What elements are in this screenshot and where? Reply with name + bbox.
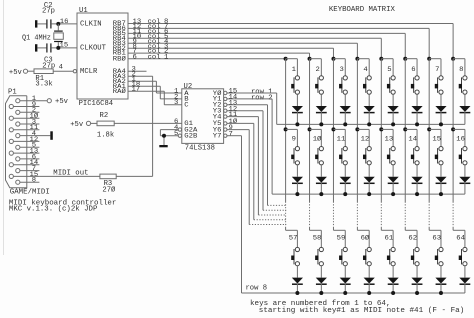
key switch S2 [310,58,322,60]
wire C2 to CLKIN [52,23,77,25]
svg-text:+5v: +5v [70,121,84,129]
key switch S15 [429,128,441,130]
node col 2 row 2 branch [308,127,312,131]
node row 8 col 3 [343,291,347,295]
diode D16 [464,165,466,177]
wire Y7 to row 8 [227,135,242,137]
node row 8 col 1 [295,291,299,295]
node row 2 col 2 [319,192,323,196]
P1 pin 8 [16,180,20,184]
wire RB1 col 2 feed [128,52,310,54]
wire row 2 bus [272,193,465,195]
diode D15 [440,165,442,177]
U1 pin RA4 stub [128,70,147,72]
diode D7 [440,94,442,106]
diode D8 [464,94,466,106]
svg-text:C: C [184,102,189,109]
Y4 inverting bubble [224,115,227,118]
diode D60 [368,266,370,278]
wire R1 to MCLR [53,70,73,72]
svg-text:col: col [148,53,161,60]
P1 pin 1 [16,99,20,103]
svg-text:Q1 4MHz: Q1 4MHz [22,34,51,42]
key switch S7 [429,58,441,60]
wire row 8 bus [242,292,465,294]
Y3 inverting bubble [224,109,227,112]
key switch S60 [357,229,369,231]
svg-text:RBØ: RBØ [113,55,126,62]
node row 2 col 5 [391,192,395,196]
capacitor C2 [37,23,46,25]
wire col 3 vertical [332,59,334,202]
Y2 inverting bubble [224,103,227,106]
diode D63 [440,266,442,278]
svg-text:27Ø: 27Ø [102,185,116,194]
svg-text:3: 3 [339,66,344,73]
node CLKIN junction [56,22,60,26]
diode D4 [368,94,370,106]
wire Y1 to row 2 [227,98,272,100]
diode D57 [296,266,298,278]
svg-text:62: 62 [408,235,417,242]
node col 5 top [379,57,383,61]
wire col 3 drop [332,48,334,59]
wire col 7 drop [428,28,430,58]
diode D6 [416,94,418,106]
svg-text:1: 1 [164,53,169,60]
svg-text:27p: 27p [42,8,55,16]
svg-text:1: 1 [292,66,297,73]
svg-text:11: 11 [337,136,346,143]
wire RB2 col 3 feed [128,47,333,49]
wire col 1 vertical [285,59,287,202]
key switch S61 [381,229,393,231]
wire Y0 to row 1 [227,92,277,94]
wire Y4 to row 5 (omitted) [227,116,258,118]
wire crystal top [57,24,59,30]
node row 1 col 1 [295,122,299,126]
key switch S57 [286,229,298,231]
node col 2 top [308,57,312,61]
wire P1 pin 15 to R3 [39,175,100,177]
svg-text:4: 4 [59,64,64,71]
key switch S1 [286,58,298,60]
key switch S13 [381,128,393,130]
ground bar at P1 [50,131,53,140]
node col 4 top [355,57,359,61]
key switch S63 [429,229,441,231]
node row 8 col 2 [319,291,323,295]
diode D61 [392,266,394,278]
svg-text:5: 5 [387,66,392,73]
diode D62 [416,266,418,278]
svg-text:13: 13 [385,136,394,143]
wire col 4 vertical [356,59,358,202]
svg-text:2: 2 [316,66,321,73]
Y5 inverting bubble [224,122,227,125]
node row 8 col 6 [415,291,419,295]
node col 7 top [427,57,431,61]
svg-text:12: 12 [361,136,370,143]
wire RB6 col 7 feed [128,27,429,29]
svg-text:CLKOUT: CLKOUT [80,45,107,53]
key switch S58 [310,229,322,231]
wire Y5 to row 6 (omitted) [227,122,254,124]
node row 1 col 6 [415,122,419,126]
svg-text:R2: R2 [100,112,109,120]
key switch S6 [405,58,417,60]
crystal Q1 [54,31,63,32]
diode D64 [464,266,466,278]
P1 pin 9 [9,104,13,108]
wire Y3 to row 4 (omitted) [227,110,263,112]
capacitor C3 [37,47,46,49]
svg-text:MCLR: MCLR [80,68,98,76]
node col 3 top [331,57,335,61]
key switch S5 [381,58,393,60]
P1 pin 5 [16,145,20,149]
svg-text:7: 7 [229,130,234,137]
ground bar at C3 [35,44,37,51]
P1 pin 2 [16,110,20,114]
svg-text:CLKIN: CLKIN [80,21,102,29]
svg-text:6: 6 [133,53,138,60]
P1 pin 11 [9,128,13,132]
node col 8 top [451,57,455,61]
resistor R1 [34,69,53,74]
diode D5 [392,94,394,106]
diode D59 [344,266,346,278]
node row 8 col 5 [391,291,395,295]
svg-text:8: 8 [459,66,464,73]
key switch S10 [310,128,322,130]
svg-text:8: 8 [32,177,37,184]
ground bar below U2 [159,145,167,147]
svg-text:+5v: +5v [55,98,69,106]
node row 8 col 4 [367,291,371,295]
node col 3 row 2 branch [331,127,335,131]
diode D2 [320,94,322,106]
svg-text:64: 64 [456,235,465,242]
svg-text:59: 59 [337,235,346,242]
wire col 8 drop [452,24,454,59]
node row 1 col 4 [367,122,371,126]
svg-text:6Ø: 6Ø [361,235,370,242]
svg-text:3: 3 [174,99,179,106]
svg-text:GAME/MIDI: GAME/MIDI [10,189,50,197]
P1 pin 14 [9,163,13,167]
wire col 5 vertical [380,59,382,202]
wire col 4 drop [356,43,358,59]
P1 pin 15 [9,174,13,178]
svg-text:KEYBOARD MATRIX: KEYBOARD MATRIX [329,6,396,14]
G2A inverting bubble [178,128,181,131]
node G2 junction [162,134,166,138]
P1 pin 12 [9,139,13,143]
G2B inverting bubble [178,134,181,137]
node row 2 col 4 [367,192,371,196]
diode D10 [320,165,322,177]
diode D1 [296,94,298,106]
diode D9 [296,165,298,177]
decoder U2 74LS138 box [182,89,224,144]
svg-text:RAØ: RAØ [113,88,126,95]
Y0 inverting bubble [224,91,227,94]
wire R3 to RA3 net [116,175,152,177]
svg-text:14: 14 [408,136,417,143]
node row 8 col 7 [439,291,443,295]
wire col 6 drop [404,33,406,58]
svg-text:15: 15 [432,136,441,143]
svg-text:1.8k: 1.8k [97,132,114,140]
wire col 7 vertical [428,59,430,202]
wire +5v to R1 [28,70,34,72]
svg-text:16: 16 [456,136,465,143]
+5v supply at P1 pin 1 [47,99,51,103]
wire RB4 col 5 feed [128,37,381,39]
MCLR inverting bubble [73,70,76,73]
svg-text:57: 57 [289,235,298,242]
node row 2 col 3 [343,192,347,196]
wire crystal bottom [57,42,59,48]
ground bar at C2 [35,20,37,27]
wire col 6 vertical [404,59,406,202]
diode D13 [392,165,394,177]
P1 pin 10 [9,116,13,120]
Y6 inverting bubble [224,128,227,131]
wire Y2 to row 3 (omitted) [227,104,268,106]
node CLKOUT junction [56,46,60,50]
border artifact left [3,0,5,255]
node col 8 row 2 branch [451,127,455,131]
key switch S64 [453,229,465,231]
wire G2B tie [160,135,178,137]
resistor R3 [100,174,116,179]
svg-text:MKC v.1.3. (c)2k JDP: MKC v.1.3. (c)2k JDP [9,206,98,214]
wire RB0 col 1 feed [128,58,286,60]
diode D12 [368,165,370,177]
node row 1 col 3 [343,122,347,126]
resistor R2 [97,121,114,126]
svg-text:58: 58 [313,235,322,242]
node row 1 col 2 [319,122,323,126]
svg-text:+5v: +5v [9,69,23,77]
P1 pin 3 [16,122,20,126]
node col 7 row 2 branch [427,127,431,131]
key switch S3 [333,58,345,60]
node row 2 col 7 [439,192,443,196]
node row 1 col 5 [391,122,395,126]
key switch S12 [357,128,369,130]
key switch S62 [405,229,417,231]
Y1 inverting bubble [224,97,227,100]
svg-text:PIC16C84: PIC16C84 [79,100,114,108]
P1 pin 13 [9,151,13,155]
wire col 2 drop [309,53,311,59]
wire RA1 to U2 B [128,85,160,87]
wire RA0 to U2 C [128,90,164,92]
svg-text:G2B: G2B [184,133,197,140]
wire RA3 to R3 net [128,75,153,77]
wire RA2 to U2 A [128,80,156,82]
node col 6 row 2 branch [403,127,407,131]
wire col 2 vertical [309,59,311,202]
svg-text:row 2: row 2 [251,94,273,102]
svg-text:74LS138: 74LS138 [185,144,215,152]
key switch S8 [453,58,465,60]
Y7 inverting bubble [224,134,227,137]
node col 5 row 2 branch [379,127,383,131]
key switch S14 [405,128,417,130]
key switch S59 [333,229,345,231]
diode D14 [416,165,418,177]
svg-text:7: 7 [435,66,440,73]
svg-text:4: 4 [363,66,368,73]
svg-text:row 8: row 8 [246,285,268,293]
diode D11 [344,165,346,177]
wire R2 to U2 G1 [114,122,182,124]
wire RB7 col 8 feed [128,23,453,25]
svg-text:15: 15 [60,42,69,49]
connector P1 DB15 shell [6,96,27,188]
node row 2 col 6 [415,192,419,196]
svg-text:17: 17 [132,86,141,93]
wire C3 to CLKOUT [52,47,77,49]
wire G2 to ground [163,136,165,146]
svg-text:61: 61 [385,235,394,242]
wire G2A tie [160,129,178,131]
svg-text:6: 6 [411,66,416,73]
op-amp U1 PIC16C84 box [77,13,128,99]
wire RB5 col 6 feed [128,32,405,34]
wire col 5 drop [380,38,382,58]
key switch S4 [357,58,369,60]
P1 pin 7 [16,169,20,173]
svg-text:63: 63 [432,235,441,242]
svg-text:Y7: Y7 [213,133,222,140]
P1 pin 4 [16,134,20,138]
node col 1 top [284,57,288,61]
svg-text:16: 16 [60,18,69,25]
wire col 8 vertical [452,59,454,202]
svg-text:3.3k: 3.3k [35,80,52,88]
svg-text:starting with key#1 as MIDI no: starting with key#1 as MIDI note #41 (F … [259,307,465,315]
diode D58 [320,266,322,278]
node row 1 col 7 [439,122,443,126]
node col 1 row 2 branch [284,127,288,131]
key switch S16 [453,128,465,130]
wire +5v to R2 [91,122,97,124]
node row 2 col 1 [295,192,299,196]
svg-text:9: 9 [292,136,297,143]
key switch S11 [333,128,345,130]
wire RB3 col 4 feed [128,42,357,44]
wire Y6 to row 7 (omitted) [227,129,249,131]
wire row 1 bus [277,123,465,125]
node col 6 top [403,57,407,61]
key switch S9 [286,128,298,130]
diode D3 [344,94,346,106]
svg-text:1Ø: 1Ø [313,136,322,143]
P1 pin 6 [16,157,20,161]
node col 4 row 2 branch [355,127,359,131]
